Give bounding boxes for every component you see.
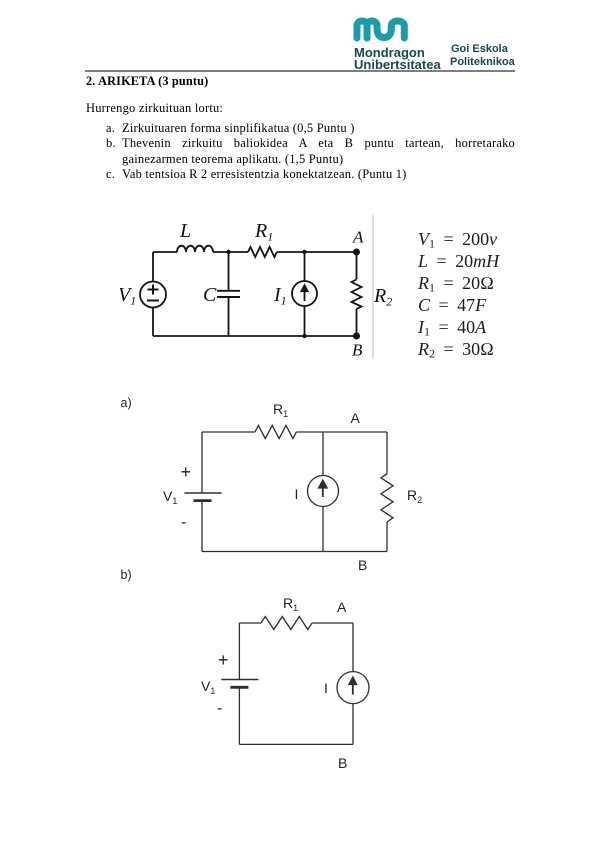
I arrow b bbox=[349, 678, 356, 695]
wire left top a bbox=[201, 432, 203, 493]
label R1 b bbox=[283, 595, 298, 611]
wire top left bbox=[153, 251, 177, 253]
label V1 a bbox=[163, 488, 177, 504]
label R1 a bbox=[273, 401, 288, 417]
value V1 bbox=[418, 229, 497, 250]
voltage source V1 bbox=[140, 282, 166, 308]
current source I branch top b bbox=[352, 623, 354, 672]
svg-text:I1: I1 bbox=[273, 284, 287, 308]
battery V1 a short plate bbox=[194, 499, 212, 502]
wire top left a bbox=[202, 431, 255, 433]
wire top right a bbox=[296, 431, 387, 433]
wire left top bbox=[152, 252, 154, 282]
value R2 bbox=[418, 339, 494, 360]
label A a bbox=[351, 410, 360, 426]
wire R1 to node A bbox=[277, 251, 357, 253]
current source I1 branch bottom bbox=[304, 306, 306, 336]
wire bottom b bbox=[239, 743, 353, 745]
wire left top b bbox=[238, 623, 240, 680]
label plus a bbox=[181, 462, 192, 483]
node B bbox=[353, 333, 360, 340]
V1 plus sign bbox=[147, 285, 159, 301]
resistor R2 lead top bbox=[356, 252, 358, 280]
V1 minus sign bbox=[147, 300, 159, 302]
wire bottom bbox=[153, 335, 357, 337]
inductor L bbox=[177, 246, 213, 252]
value C bbox=[418, 295, 486, 316]
resistor R2 a bbox=[381, 474, 393, 522]
capacitor C plates bbox=[217, 290, 240, 292]
current source I b bbox=[337, 672, 369, 704]
node L-C junction bbox=[226, 250, 230, 254]
label I a bbox=[295, 486, 299, 502]
resistor R1 bbox=[248, 247, 277, 257]
label V1 b bbox=[201, 678, 215, 694]
battery V1 a long plate bbox=[185, 492, 222, 494]
battery V1 b short plate bbox=[230, 686, 248, 689]
resistor R2 bbox=[352, 280, 362, 310]
wire left bottom bbox=[152, 308, 154, 337]
resistor R2 lead bottom a bbox=[386, 522, 388, 552]
resistor R2 lead top a bbox=[386, 432, 388, 474]
node I1 top bbox=[302, 250, 306, 254]
label B b bbox=[338, 755, 347, 771]
label R2 a bbox=[407, 487, 422, 503]
svg-text:C: C bbox=[203, 284, 217, 306]
wire bottom a bbox=[202, 551, 387, 553]
node I1 bottom bbox=[302, 334, 306, 338]
separator line bbox=[372, 215, 374, 359]
label minus a bbox=[181, 514, 186, 532]
battery V1 b long plate bbox=[221, 679, 258, 681]
svg-text:R1: R1 bbox=[254, 220, 273, 244]
svg-text:R2: R2 bbox=[373, 285, 392, 309]
resistor R2 lead bottom bbox=[356, 309, 358, 336]
svg-text:B: B bbox=[352, 341, 363, 360]
current source I branch top a bbox=[322, 432, 324, 476]
I1 arrow bbox=[301, 285, 307, 301]
current source I branch bottom b bbox=[352, 704, 354, 745]
label B a bbox=[358, 557, 367, 573]
label A b bbox=[337, 599, 346, 615]
svg-text:V1: V1 bbox=[120, 284, 136, 308]
wire L to R1 bbox=[213, 251, 248, 253]
current source I branch bottom a bbox=[322, 507, 324, 552]
wire top right b bbox=[312, 622, 353, 624]
value L bbox=[418, 251, 499, 272]
value R1 bbox=[418, 273, 494, 294]
wire top left b bbox=[239, 622, 261, 624]
resistor R1 a bbox=[255, 425, 296, 438]
label L bbox=[118, 220, 392, 360]
capacitor C wire bottom bbox=[228, 297, 230, 336]
capacitor C wire top bbox=[228, 252, 230, 290]
logo wordmark bbox=[354, 45, 425, 60]
current source I a bbox=[308, 476, 339, 507]
value I1 bbox=[418, 317, 486, 338]
label I b bbox=[324, 680, 328, 696]
current source I1 bbox=[292, 281, 317, 306]
current source I1 branch top bbox=[304, 252, 306, 281]
label minus b bbox=[217, 700, 222, 718]
I arrow a bbox=[319, 481, 327, 497]
node A bbox=[353, 249, 360, 256]
label plus b bbox=[218, 650, 229, 671]
resistor R1 b bbox=[261, 617, 312, 630]
svg-text:L: L bbox=[179, 220, 191, 242]
header rule bbox=[85, 70, 515, 72]
svg-text:A: A bbox=[352, 228, 364, 247]
logo mu bbox=[353, 17, 412, 43]
wire left bottom b bbox=[238, 687, 240, 744]
wire left bottom a bbox=[201, 501, 203, 552]
